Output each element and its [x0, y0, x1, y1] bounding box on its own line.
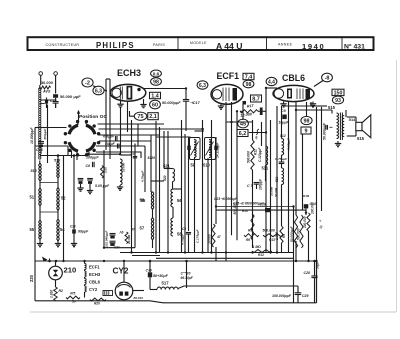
ground CBL6 right [310, 103, 316, 105]
junction dot x296 y110 [295, 109, 297, 111]
circled 6,3 ECH3 [93, 86, 104, 95]
wire vertical x135 y143.5-247.7 [134, 144, 136, 248]
left border wire [34, 128, 36, 262]
svg-text:500.000: 500.000 [233, 203, 237, 215]
svg-text:16μμF: 16μμF [279, 121, 290, 125]
resistor R11 500.000 [251, 140, 254, 170]
wire vertical x68 y146-155.5 [67, 146, 69, 156]
wire C29 stub [297, 286, 299, 293]
svg-text:100.000μμF: 100.000μμF [272, 294, 292, 298]
wire vertical x216 y247-252.5 [215, 247, 217, 253]
header divider 1 [177, 36, 179, 50]
junction dot x104 y247.7 [103, 247, 105, 249]
tube CY2 envelope [115, 282, 133, 300]
wire horizontal y110 x296-332 [296, 109, 332, 111]
tube ECH3 envelope [110, 84, 146, 101]
svg-text:1,4: 1,4 [151, 93, 159, 99]
svg-text:PHILIPS: PHILIPS [96, 41, 135, 50]
svg-text:C2ℓ: C2ℓ [114, 246, 120, 250]
capacitor C18 [38, 141, 44, 143]
svg-text:100.000: 100.000 [303, 216, 307, 228]
coil 52 [57, 188, 59, 210]
wire vertical x138 y124-146 [137, 124, 139, 146]
svg-text:ECH3: ECH3 [89, 272, 101, 277]
wire vertical x127.5 y102-132 [127, 102, 129, 132]
wire vertical x181.5 y120-252.5 [181, 120, 183, 253]
svg-text:R20: R20 [94, 301, 100, 305]
capacitor C22a [110, 233, 116, 235]
resistor box small ECF1 [260, 108, 263, 116]
svg-text:210: 210 [64, 266, 77, 275]
wire vertical x120.5 y107.5-154.2 [120, 108, 122, 155]
svg-text:500.000: 500.000 [263, 229, 275, 233]
svg-text:C™20: C™20 [181, 271, 191, 275]
svg-text:98: 98 [153, 79, 159, 85]
wire 515 vert [331, 110, 333, 114]
wire small ecap [46, 98, 48, 100]
svg-text:500.000: 500.000 [296, 228, 300, 240]
wire vertical x106 y126-150 [105, 126, 107, 150]
heater link 1 [84, 270, 86, 272]
junction dot bus1 x156 [155, 251, 157, 253]
tube ECF1 cathode blob [243, 101, 247, 105]
wire vertical x55.6 y104-108 [55, 104, 57, 108]
coil 54 [57, 220, 59, 241]
svg-text:475: 475 [69, 291, 76, 295]
coil 518 [39, 163, 41, 180]
junction dot x313 y106 [312, 105, 314, 107]
svg-text:ECF1: ECF1 [217, 71, 240, 81]
wire vertical x159.5 y127-252.5 [159, 127, 161, 253]
transformer 514 secondary [342, 116, 344, 137]
junction dot x266 y88 [265, 87, 267, 89]
svg-text:514: 514 [349, 117, 356, 122]
tube CBL6 envelope [273, 85, 314, 101]
circled 60 [150, 100, 161, 109]
junction dot x306 y212.6 [305, 211, 307, 213]
oval 98 CBL6 [301, 116, 312, 124]
junction dot x120 y154.2 [119, 153, 121, 155]
wire horizontal y189 x173-181.5 [173, 188, 182, 190]
svg-text:10.000: 10.000 [122, 162, 126, 172]
wire cap to transformer [330, 126, 333, 128]
wire vertical x216 y137-224 [215, 137, 217, 224]
svg-text:R1В: R1В [303, 194, 310, 198]
capacitor C22b [110, 240, 116, 242]
heater chain wire [84, 261, 86, 264]
svg-text:C2ℓ: C2ℓ [70, 225, 76, 229]
wire vertical x281.5 y163.6-168 [281, 164, 283, 168]
wire vertical x211.5 y120-252.5 [211, 120, 213, 253]
wire vertical x152.5 y209-218 [152, 209, 154, 218]
svg-text:50.000μμF: 50.000μμF [323, 122, 327, 140]
svg-text:CY2: CY2 [113, 267, 129, 276]
wire horizontal y106 x313-327 [313, 105, 327, 107]
wire vertical x185 y134-252.5 [184, 134, 186, 253]
tube CBL6 anode bar [306, 89, 311, 99]
wire vertical x226 y252.5-261 [225, 253, 227, 262]
svg-text:7,4: 7,4 [245, 74, 253, 80]
wire vertical x321.5 y107-211 [321, 107, 323, 211]
wire vertical x266 y88-252.5 [265, 88, 267, 253]
circled -8 [322, 73, 333, 82]
capacitor C11 [87, 178, 93, 180]
wire vertical x252.5 y120-140 [252, 120, 254, 140]
wire vertical x346.8 y136-136 [346, 135, 348, 137]
bottom bus [35, 301, 317, 303]
junction dot bus2 x296 [295, 260, 297, 262]
heater link 4 [84, 292, 86, 298]
svg-text:R12: R12 [258, 253, 264, 257]
lamp 210 circle [49, 266, 63, 280]
coil 53 [120, 159, 122, 185]
svg-text:9: 9 [305, 128, 308, 134]
svg-text:500μμF: 500μμF [43, 129, 47, 140]
box 8,7 [251, 95, 262, 102]
wire vertical x281.5 y106-138.5 [281, 106, 283, 139]
svg-text:98: 98 [304, 118, 310, 124]
circled 6,3 ECF1 [197, 81, 208, 89]
svg-text:6,3: 6,3 [95, 88, 102, 94]
wire -2 to tube [93, 86, 107, 91]
junction dot bus2 x316.5 [315, 260, 317, 262]
header divider 3 [341, 36, 343, 50]
wire sw left 2 [35, 145, 68, 147]
page edge right [396, 60, 398, 312]
IF can 510 outline [205, 138, 216, 160]
svg-text:520: 520 [163, 175, 167, 181]
wire vertical x131.5 y120-252.5 [131, 120, 133, 253]
junction dot x293.5 y206.5 [292, 205, 294, 207]
heater link 3 [84, 285, 86, 287]
junction dot bus1 x226 [225, 251, 227, 253]
wire speaker leads [347, 116, 356, 118]
wire C19 down [149, 277, 151, 289]
page edge bottom [30, 311, 396, 313]
wire sw right 2 [99, 128, 205, 130]
svg-text:510: 510 [203, 163, 211, 168]
ground ECH3 left [117, 103, 123, 105]
wire vertical x39.8 y85-89 [39, 85, 41, 89]
svg-text:515: 515 [328, 105, 336, 110]
wire horizontal y155 x120.5-131.5 [121, 154, 132, 156]
tube ECF1 envelope [211, 84, 243, 104]
svg-text:C⅟9: C⅟9 [146, 268, 152, 272]
wire vertical x145 y146-192 [144, 146, 146, 192]
svg-text:R10: R10 [242, 209, 248, 213]
coil 55 [39, 221, 41, 239]
wire vertical x281.5 y155-162 [281, 155, 283, 162]
svg-text:C28: C28 [304, 271, 310, 275]
svg-text:4.79μμF: 4.79μμF [141, 171, 145, 183]
ground C11 [89, 184, 91, 191]
wire C13 mid [55, 98, 57, 102]
wire -8 down [314, 81, 323, 87]
capacitor C14 [304, 204, 309, 208]
wire horizontal y155.5 x58-88 [58, 155, 88, 157]
circled 4,4 [266, 77, 277, 85]
capacitor C13 bottom [53, 101, 59, 103]
ground C21 [71, 243, 77, 245]
wire vertical x261.5 y122-146 [261, 122, 263, 146]
wire sw right 3 [96, 145, 145, 147]
svg-text:1.810: 1.810 [49, 290, 53, 298]
wire to C17 [185, 89, 187, 100]
svg-text:2,1: 2,1 [149, 114, 157, 120]
box 1,4 [150, 92, 161, 98]
svg-text:MODELE: MODELE [190, 41, 207, 45]
wire ECH3 anode right [144, 88, 186, 90]
svg-text:AVS: AVS [42, 89, 51, 93]
svg-text:ECH3: ECH3 [117, 68, 141, 78]
wire C21 v [73, 225, 75, 229]
wire vertical x256.5 y184.1-189 [256, 184, 258, 189]
wire horizontal y290.5 x133-144 [133, 290, 144, 292]
svg-text:-2: -2 [85, 80, 90, 86]
wire horizontal y79 x106-110 [106, 78, 110, 80]
wire vertical x296 y102-215 [295, 102, 297, 215]
svg-text:3o: 3o [72, 300, 76, 304]
squiggle lead [256, 129, 259, 135]
svg-text:100μμF: 100μμF [86, 156, 99, 160]
tube CBL6 left leg [283, 102, 285, 104]
svg-text:150: 150 [334, 90, 343, 96]
rotary switch ring [86, 142, 95, 151]
junction dot x202.5 y129 [201, 128, 203, 130]
ground transformer [337, 141, 339, 144]
junction dot x216 y206.5 [215, 205, 217, 207]
ground 54 [57, 241, 59, 244]
circled -2 [82, 78, 93, 87]
svg-text:Λ6: Λ6 [119, 230, 124, 234]
junction dot bus2 x104 [103, 260, 105, 262]
tube ECH3 dot electrode [137, 88, 140, 91]
wire vertical x252.5 y170-248 [252, 170, 254, 248]
wire horizontal y88 x266-277 [266, 87, 277, 89]
wire horizontal y111.3 x243-240 [240, 110, 243, 112]
svg-text:57: 57 [140, 226, 145, 231]
power box right border [316, 261, 318, 303]
wire vertical x74 y245-247 [73, 245, 75, 247]
svg-text:8,7: 8,7 [252, 96, 260, 102]
svg-text:99μμF: 99μμF [78, 230, 89, 234]
junction dot bus1 x252.5 [251, 251, 253, 253]
junction dot x231.5 y122 [230, 121, 232, 123]
tube ECF1 left leg [220, 104, 222, 106]
wire horizontal y131 x194.5-204 [195, 130, 205, 132]
wire antenna chain bottom [39, 161, 41, 164]
wire choke bus 286 [178, 286, 298, 289]
wire horizontal y137 x156-190.5 [156, 136, 191, 138]
wire vertical x231.5 y102-235.2 [231, 102, 233, 235]
wire vertical x302.5 y134-210.1 [302, 134, 304, 210]
svg-text:518: 518 [31, 169, 38, 173]
junction dot bus2 x63.5 [62, 260, 64, 262]
svg-text:512: 512 [280, 134, 286, 138]
transformer 514 primary [337, 113, 339, 139]
capacitor near 515 [325, 125, 327, 130]
antenna terminal A1 [39, 72, 43, 76]
svg-text:C1В: C1В [36, 148, 43, 152]
tube CBL6 grid dashes [296, 89, 298, 100]
box 150 [332, 89, 344, 95]
wire vertical x110 y79-126 [109, 79, 111, 126]
heater link 2 [84, 277, 86, 279]
tube CY2 filament blobs [119, 292, 123, 296]
wire vertical x110 y126-159 [109, 126, 111, 159]
coil 512 [282, 139, 284, 156]
svg-text:102.940μμF: 102.940μμF [104, 231, 108, 247]
svg-text:100μμF: 100μμF [259, 178, 263, 190]
svg-text:C.123μμF: C.123μμF [258, 147, 262, 162]
svg-text:50.000μμF: 50.000μμF [162, 101, 181, 105]
wire heater top [84, 261, 86, 263]
wire horizontal y192 x151-152.5 [151, 191, 153, 193]
resistor R7 10.000 [212, 224, 215, 247]
wire sw mid right [99, 134, 160, 136]
ballast box [103, 291, 113, 296]
wire vertical x168 y131-252.5 [167, 131, 169, 253]
svg-text:PARIS: PARIS [153, 43, 165, 47]
wire vertical x265.5 y165-181 [265, 165, 267, 181]
svg-text:93: 93 [335, 98, 341, 104]
box 7,4 [243, 73, 254, 79]
IF can 510 arrow [206, 142, 214, 156]
svg-text:C8: C8 [182, 227, 186, 231]
wire vertical x172.5 y181.5-189 [172, 182, 174, 190]
switch top stubs [77, 122, 79, 125]
ground ECH3 right [140, 104, 146, 106]
wire vertical x281.5 y184.5-226 [281, 185, 283, 227]
wire L mid [104, 150, 135, 248]
wire vertical x296 y241-261 [295, 241, 297, 261]
junction dot bus1 x185 [184, 251, 186, 253]
tube CBL6 right leg [312, 102, 314, 104]
svg-text:K.6μμF: K.6μμF [103, 134, 115, 138]
box 2,1 [148, 113, 159, 120]
IF can 510 cap [214, 146, 217, 150]
svg-text:47: 47 [216, 235, 221, 239]
tube ECH3 left leg [120, 101, 122, 104]
svg-text:0,6: 0,6 [153, 71, 160, 76]
svg-text:86.010: 86.010 [134, 296, 144, 300]
tube CBL6 inner rect1 [287, 89, 292, 99]
coil 56b [171, 189, 173, 207]
wire sw right 1 [98, 123, 165, 125]
wire 75 line [130, 111, 135, 116]
wire horizontal y181 x151-164 [151, 180, 164, 182]
svg-text:517: 517 [162, 280, 170, 285]
svg-text:36.000: 36.000 [41, 80, 53, 85]
svg-text:N° 431: N° 431 [344, 43, 365, 51]
wire sw left 1 [48, 127, 67, 129]
wire horizontal y132.5 x248.8-266 [249, 132, 266, 134]
oval 0,6 [151, 70, 162, 77]
svg-text:Position OC: Position OC [79, 114, 107, 120]
svg-text:C6: C6 [86, 164, 91, 168]
wire vertical x188.5 y137-231 [188, 137, 190, 231]
junction dot bus1 x131.5 [130, 251, 132, 253]
speaker [356, 122, 362, 130]
svg-text:ECF1: ECF1 [89, 265, 100, 270]
box 9 [301, 127, 311, 134]
box 6,2 [237, 130, 248, 137]
wire vertical x216 y252.5-261 [215, 253, 217, 262]
oval 98 ECF1 [243, 80, 254, 88]
svg-text:66.34μF: 66.34μF [181, 276, 194, 280]
coil 59 [194, 140, 196, 158]
wire vertical x277 y106-252.5 [276, 106, 278, 253]
wire C13 down [55, 103, 57, 108]
svg-text:R2: R2 [59, 289, 64, 293]
tube ECH3 right leg [143, 99, 145, 105]
svg-text:CBL6: CBL6 [282, 73, 305, 83]
IF can 59 cap [187, 146, 190, 150]
antenna terminal A2 [54, 72, 58, 76]
junction dot x266 y132.5 [265, 131, 267, 133]
svg-text:C16: C16 [260, 203, 266, 207]
svg-text:54: 54 [60, 227, 65, 232]
heater coil ECH3 [85, 271, 87, 277]
resistor 50.000 vert [294, 215, 297, 248]
oval 93 [332, 96, 343, 104]
svg-text:50+30μF: 50+30μF [153, 274, 169, 278]
wire vertical x226 y102-252.5 [225, 102, 227, 253]
svg-text:C13: C13 [50, 99, 56, 103]
heater coil CBL6 [85, 279, 87, 285]
svg-text:5.05 μμF: 5.05 μμF [95, 184, 110, 188]
svg-text:R8: R8 [248, 229, 252, 233]
wire col2 joins [57, 178, 59, 189]
svg-text:R11: R11 [254, 149, 258, 155]
wire vertical x106 y79-126 [105, 79, 107, 126]
coil 519 [57, 162, 59, 178]
capacitor C13 top plate [53, 94, 58, 98]
wire horizontal y168.5 x164-172.5 [164, 168, 173, 170]
svg-text:56.000 μμF: 56.000 μμF [60, 94, 81, 99]
IF can 59 outline [190, 138, 201, 160]
svg-text:CY2: CY2 [89, 287, 98, 292]
resistor R2 1.810 [54, 287, 57, 301]
svg-text:98: 98 [246, 82, 252, 88]
tube ECF1 grid lines [222, 88, 224, 102]
wire vertical x152.5 y239.5-248 [152, 240, 154, 249]
mains arrow [42, 257, 48, 262]
svg-text:500.000: 500.000 [247, 151, 251, 163]
svg-text:1940: 1940 [302, 42, 325, 51]
svg-text:C14: C14 [310, 202, 316, 206]
wire vertical x164 y131-168.5 [163, 131, 165, 169]
wire antenna A2 down [55, 75, 57, 93]
svg-text:ANNEE: ANNEE [278, 42, 293, 46]
svg-text:C29: C29 [302, 294, 308, 298]
circled 45 [238, 119, 249, 128]
ground 53 [119, 185, 121, 187]
junction dot x237 y111.3 [236, 110, 238, 112]
junction dots coil bank [73, 154, 76, 157]
rotary switch contacts [76, 120, 79, 123]
junction dot bus2 x84.5 [83, 260, 85, 262]
wire vertical x156 y121-252.5 [155, 121, 157, 253]
svg-text:55: 55 [141, 198, 146, 203]
wire vertical x173 y207-218 [172, 207, 174, 218]
header outer box [28, 37, 374, 50]
svg-text:⊣C17: ⊣C17 [190, 101, 201, 105]
resistor R18 100.000 [307, 213, 310, 231]
wire vertical x208 y158-252.5 [207, 158, 209, 253]
wire horizontal y252.5 x120-293.5 [120, 252, 294, 254]
junction dot bus1 x277 [276, 251, 278, 253]
